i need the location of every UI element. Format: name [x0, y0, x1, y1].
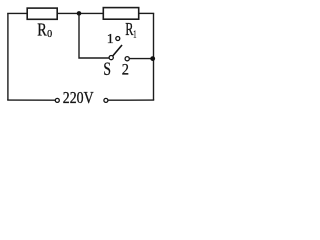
svg-text:S: S: [103, 60, 111, 80]
svg-text:0: 0: [47, 29, 52, 40]
resistor R0: [27, 8, 57, 19]
wire: left side vertical: [7, 13, 9, 100]
switch S pole terminal: [109, 56, 113, 60]
svg-text:2: 2: [122, 61, 129, 78]
supply terminal right: [104, 98, 108, 102]
wire: top right from R1 to corner: [139, 12, 155, 14]
wire: bottom left: [7, 99, 55, 101]
switch throw contact 1: [116, 37, 120, 41]
resistor R1: [103, 8, 138, 20]
wire: top run from left corner through R0 and node A to R1: [7, 12, 103, 14]
supply terminal left: [55, 98, 59, 102]
wire: contact 2 to right side: [129, 58, 153, 60]
wire: branch from node A down and across to switch pole: [79, 13, 109, 58]
switch S lever (open, pointing between contacts): [113, 45, 122, 56]
svg-text:220V: 220V: [63, 88, 94, 107]
wire: bottom right: [108, 99, 154, 101]
svg-text:1: 1: [133, 28, 136, 40]
wire: right side vertical: [153, 13, 155, 100]
node A: junction of R0, R1 and switch branch: [77, 11, 82, 16]
label R1: [125, 19, 136, 40]
label R0: [37, 20, 52, 40]
svg-text:R: R: [37, 20, 47, 40]
svg-text:1: 1: [107, 32, 114, 47]
node B: junction on right side wire: [150, 56, 155, 61]
switch throw contact 2: [125, 57, 129, 61]
